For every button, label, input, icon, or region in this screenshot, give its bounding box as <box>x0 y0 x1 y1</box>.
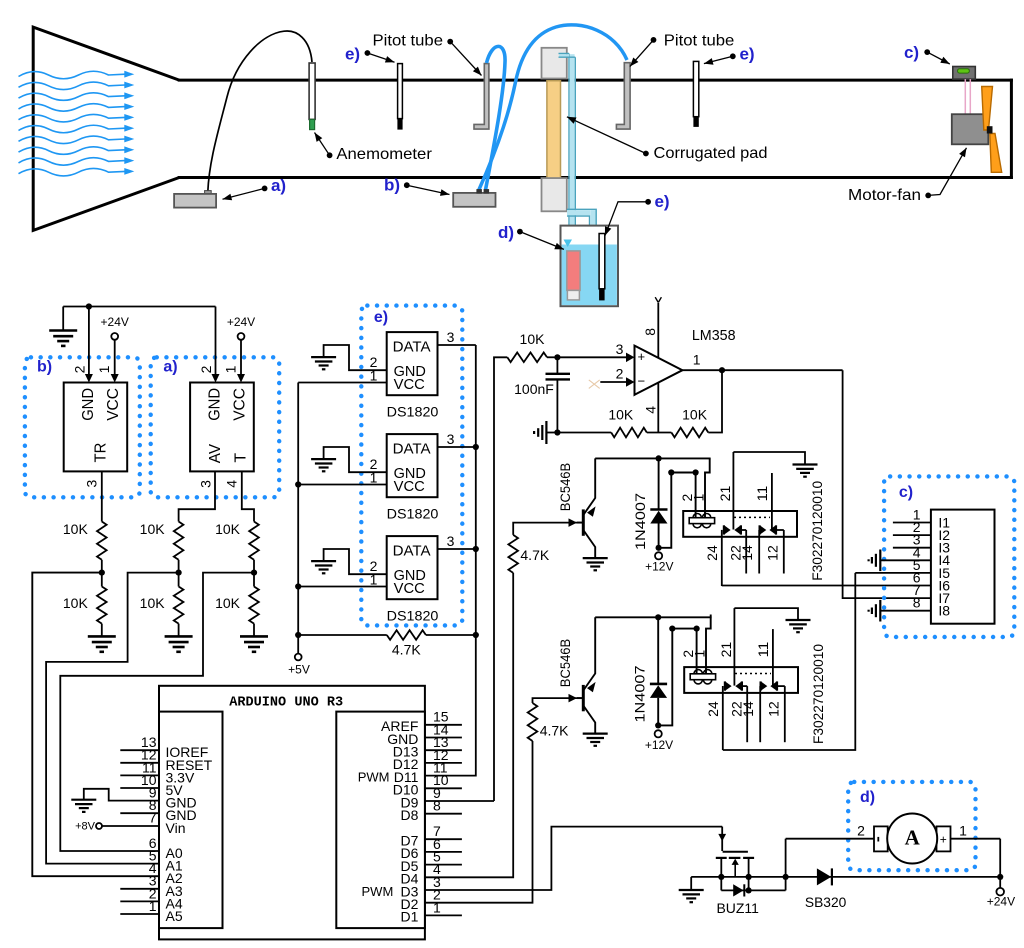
BUZ11 channel plate <box>716 857 727 859</box>
Arduino right pin 10 (D10) <box>425 787 462 789</box>
svg-text:2: 2 <box>71 365 87 373</box>
anemometer probe <box>309 63 315 119</box>
thermometer probe 1 in duct <box>398 64 403 119</box>
+5V bus wire <box>297 383 299 654</box>
connector pin 5 wire stub <box>855 572 931 574</box>
relay contact B triangles <box>758 525 760 534</box>
Arduino right pin 8 (D8) <box>425 813 462 815</box>
svg-text:4.7K: 4.7K <box>392 642 421 658</box>
hose pitot A to box b <box>486 46 506 190</box>
ground of divider at x=178.6 <box>178 624 180 637</box>
svg-text:24: 24 <box>705 701 721 717</box>
svg-text:c): c) <box>904 43 919 62</box>
resistor 4.7K pullup <box>298 634 387 636</box>
svg-text:DS1820: DS1820 <box>387 403 439 419</box>
DS1820 #2 DATA pin 3 wire <box>438 446 476 448</box>
svg-text:1: 1 <box>223 365 239 373</box>
svg-text:1: 1 <box>693 352 701 368</box>
relay contact common pin 14 <box>758 530 760 574</box>
relay pin 11 wire <box>772 629 774 686</box>
svg-text:b): b) <box>384 175 400 194</box>
+5V supply terminal <box>295 654 302 661</box>
svg-text:10K: 10K <box>140 595 166 611</box>
relay box F302270120010 <box>684 667 798 693</box>
svg-text:e): e) <box>739 44 754 63</box>
Arduino left pin 11 (3.3V) <box>120 774 159 776</box>
BUZ11 gate lead with arrow <box>721 827 723 851</box>
svg-text:1: 1 <box>959 823 967 839</box>
svg-text:D8: D8 <box>400 807 418 823</box>
resistor 10K op-amp input <box>494 357 507 801</box>
relay box F302270120010 <box>683 511 797 537</box>
svg-text:10K: 10K <box>520 331 546 347</box>
DS1820 #2 VCC pin 1 wire <box>298 484 387 486</box>
DATA bus wire to Arduino D11 <box>425 345 476 776</box>
svg-text:DS1820: DS1820 <box>387 607 439 623</box>
resistor 10K upper divider at x=101.8 <box>97 522 107 560</box>
svg-text:+12V: +12V <box>645 559 673 573</box>
svg-text:10K: 10K <box>682 407 708 423</box>
wire 4.7K to Arduino D2 <box>425 741 533 903</box>
svg-text:ARDUINO UNO R3: ARDUINO UNO R3 <box>229 695 343 711</box>
BUZ11 body diode <box>721 889 785 891</box>
pitot tube A <box>474 64 489 130</box>
fan blades <box>982 87 993 131</box>
svg-text:DATA: DATA <box>393 440 431 457</box>
relay armature dotted line <box>735 673 771 675</box>
svg-text:e): e) <box>374 309 388 326</box>
svg-text:DATA: DATA <box>393 542 431 559</box>
svg-text:GND: GND <box>206 388 223 421</box>
svg-text:14: 14 <box>740 701 756 717</box>
svg-text:10K: 10K <box>608 407 634 423</box>
relay 1 pin 21 to ground <box>733 452 805 465</box>
Arduino left pin 13 (IOREF) <box>120 749 159 751</box>
pressure sensor box a under duct <box>174 194 216 208</box>
DS1820 #1 GND pin 2 wire and ground <box>324 345 387 370</box>
svg-text:3: 3 <box>447 329 455 345</box>
relay contact B triangles <box>759 681 761 690</box>
sensor b) GND pin wire (pin 2) <box>88 307 90 376</box>
svg-text:8: 8 <box>433 798 441 814</box>
L-tube from pad into container <box>567 209 596 241</box>
svg-text:−: − <box>638 374 646 389</box>
sensor a) VCC pin wire (pin 1) <box>240 340 242 375</box>
divider junction at x=178.6 <box>178 560 180 587</box>
DS1820 #3 box <box>387 536 438 599</box>
svg-text:10K: 10K <box>215 521 241 537</box>
Arduino left pin 2 (A4) <box>120 900 159 902</box>
svg-text:8: 8 <box>913 595 921 611</box>
junction input node <box>554 354 560 360</box>
connector box <box>931 510 995 624</box>
thermometer probe in container <box>599 234 605 289</box>
svg-text:I8: I8 <box>938 603 950 619</box>
svg-text:4.7K: 4.7K <box>540 723 569 739</box>
svg-text:SB320: SB320 <box>805 894 847 910</box>
pitot tube B <box>616 63 630 129</box>
svg-text:BC546B: BC546B <box>557 639 573 687</box>
svg-text:BUZ11: BUZ11 <box>717 900 760 916</box>
svg-text:d): d) <box>498 223 514 242</box>
+12V supply for relay 1 <box>656 545 662 551</box>
svg-text:1: 1 <box>96 365 112 373</box>
svg-text:10K: 10K <box>63 521 89 537</box>
svg-text:1N4007: 1N4007 <box>632 493 648 550</box>
svg-text:c): c) <box>899 484 913 501</box>
wire Arduino D9 to op-amp input resistor <box>425 800 494 802</box>
divider junction at x=101.8 <box>101 560 103 587</box>
feedback resistor 10K second <box>671 428 708 438</box>
svg-text:Pitot tube: Pitot tube <box>664 33 735 50</box>
resistor 10K upper divider at x=254 <box>249 522 259 560</box>
DS1820 #1 DATA pin 3 wire <box>438 344 476 346</box>
relay contact A triangles <box>723 525 725 534</box>
svg-text:14: 14 <box>739 545 755 561</box>
relay pin 21 wire <box>733 608 735 686</box>
wire relay 2 pin 24 to connector I5 <box>723 573 856 750</box>
svg-text:+5V: +5V <box>288 663 310 677</box>
resistor 10K lower divider at x=101.8 <box>97 587 107 624</box>
divider junction at x=254 <box>253 560 255 587</box>
relay contact A triangles <box>724 681 726 690</box>
ammeter wire pin 2 <box>785 839 787 877</box>
svg-text:Corrugated pad: Corrugated pad <box>654 145 768 162</box>
svg-text:24: 24 <box>704 545 720 561</box>
ground of divider at x=254 <box>253 624 255 637</box>
svg-text:3: 3 <box>447 431 455 447</box>
Arduino right pin header box <box>336 712 425 929</box>
+12V supply for relay 2 <box>655 722 661 728</box>
svg-text:10K: 10K <box>63 595 89 611</box>
svg-text:2: 2 <box>857 823 865 839</box>
ammeter wire pin 1 <box>951 838 1001 840</box>
op-amp output pin 1 wire <box>682 369 842 371</box>
op-amp LM358 U1 <box>635 346 683 395</box>
svg-text:2: 2 <box>616 366 624 382</box>
wire to op-amp pin 3 <box>557 356 627 358</box>
svg-text:LM358: LM358 <box>692 327 736 344</box>
dotted box d) <box>848 782 975 870</box>
resistor 10K upper divider at x=178.6 <box>174 522 184 560</box>
vertical tube from pad to heater <box>569 54 575 250</box>
pressure sensor b) box <box>64 383 127 472</box>
feedback resistor 10K first <box>557 432 611 434</box>
svg-text:F302270120010: F302270120010 <box>810 481 825 581</box>
ground symbol top-left <box>62 307 64 331</box>
sensor b) +24V supply <box>111 333 118 340</box>
svg-text:DATA: DATA <box>393 338 431 355</box>
op-amp pin 4 wire <box>657 383 659 433</box>
svg-text:Vin: Vin <box>166 820 186 836</box>
dotted box a) <box>151 357 280 497</box>
sensor b) pin 3 wire <box>101 471 103 521</box>
wire op-amp output down to connector I7 <box>843 370 931 598</box>
svg-text:4.7K: 4.7K <box>520 547 549 563</box>
corrugated pad holder bottom block <box>542 178 567 211</box>
Arduino left pin 1 (A5) <box>120 913 159 915</box>
svg-text:F302270120010: F302270120010 <box>811 644 826 744</box>
svg-text:4: 4 <box>224 480 240 488</box>
svg-text:8: 8 <box>642 328 658 336</box>
svg-text:11: 11 <box>755 642 771 658</box>
svg-text:3: 3 <box>84 479 100 487</box>
DS1820 #1 VCC pin 1 wire <box>298 382 387 384</box>
ground at connector pin 8 <box>879 600 881 622</box>
svg-text:7: 7 <box>149 810 157 826</box>
ammeter terminal blocks <box>874 826 888 851</box>
+24V supply terminal <box>997 874 1003 880</box>
junction node at sensor b GND <box>86 303 92 309</box>
relay pin 22 wire <box>742 685 747 687</box>
Arduino right pin 13 (D13) <box>425 749 462 751</box>
connector pin 3 wire <box>893 547 931 549</box>
Arduino right pin 6 (D6) <box>425 851 462 853</box>
sensor a) +24V supply <box>238 333 245 340</box>
water container <box>561 226 619 307</box>
Arduino left pin 3 (A3) <box>120 888 159 890</box>
dotted box b) <box>25 357 140 497</box>
svg-text:2: 2 <box>198 365 214 373</box>
svg-text:TR: TR <box>92 443 109 463</box>
svg-text:a): a) <box>271 176 286 195</box>
Arduino left pin 10 (5V) <box>120 787 159 789</box>
svg-text:1N4007: 1N4007 <box>632 665 648 722</box>
svg-text:10K: 10K <box>215 595 241 611</box>
svg-text:+24V: +24V <box>987 895 1015 909</box>
DS1820 #1 box <box>387 332 438 395</box>
svg-text:D1: D1 <box>400 909 418 925</box>
DS1820 #3 GND pin 2 wire and ground <box>324 549 387 574</box>
motor wires <box>964 79 966 114</box>
relay pin 12 wire <box>776 529 784 531</box>
wire divider a-T to Arduino A0 <box>60 573 254 851</box>
wire to op-amp pin 2 <box>600 381 627 383</box>
capacitor 100nF <box>556 357 558 373</box>
stray cross mark <box>589 380 600 389</box>
relay coil <box>690 674 715 680</box>
BUZ11 drain lead <box>748 858 750 891</box>
BUZ11 source lead <box>720 858 722 891</box>
+8V supply to Vin <box>96 823 102 829</box>
svg-text:+8V: +8V <box>75 821 96 833</box>
diode SB320 <box>786 876 1001 878</box>
Arduino left pin header box <box>159 712 223 929</box>
svg-text:A: A <box>905 825 921 849</box>
svg-text:GND: GND <box>80 388 97 421</box>
relay pin 22 wire <box>741 529 746 531</box>
svg-text:12: 12 <box>765 545 781 561</box>
wind tunnel duct top wall <box>178 79 1013 82</box>
sensor a) pin 3 wire <box>179 471 215 521</box>
svg-text:b): b) <box>37 359 52 376</box>
pressure sensor a) box <box>190 383 254 472</box>
ground of divider at x=101.8 <box>101 624 103 637</box>
air flow arrows <box>19 71 126 79</box>
Arduino right pin 15 (AREF) <box>425 724 462 726</box>
svg-text:3: 3 <box>197 480 213 488</box>
dotted box e) <box>361 306 462 626</box>
wind tunnel duct bottom wall <box>178 176 1013 179</box>
svg-text:Motor-fan: Motor-fan <box>848 187 921 204</box>
svg-text:+24V: +24V <box>101 315 129 329</box>
svg-text:+: + <box>940 832 947 846</box>
collector rail to relay 1 coil <box>595 457 710 459</box>
svg-text:+12V: +12V <box>645 738 673 752</box>
svg-text:A5: A5 <box>166 908 183 924</box>
svg-text:PWM: PWM <box>358 770 390 785</box>
relay armature dotted line <box>734 516 770 518</box>
Arduino right pin 14 (GND) <box>425 737 462 739</box>
resistor 10K lower divider at x=178.6 <box>174 587 184 624</box>
flyback diode 1N4007 D2 <box>657 617 659 684</box>
svg-text:21: 21 <box>718 642 734 658</box>
svg-text:1: 1 <box>370 469 378 485</box>
svg-text:11: 11 <box>754 485 770 501</box>
svg-text:12: 12 <box>766 701 782 717</box>
wire 4.7K to Arduino D4 <box>425 573 513 877</box>
transistor BC546B <box>582 685 585 711</box>
pressure sensor box b under duct <box>453 193 495 207</box>
wire +12V to relay 2 coil pin 2 <box>658 629 696 726</box>
svg-text:21: 21 <box>717 485 733 501</box>
wire Arduino D3 to BUZ11 gate <box>425 827 722 890</box>
ammeter A <box>887 814 937 864</box>
resistor 4.7K base of Q2 <box>533 698 582 703</box>
svg-text:1: 1 <box>370 571 378 587</box>
svg-text:+24V: +24V <box>227 315 255 329</box>
sensor a) pin 4 wire <box>242 471 254 521</box>
Arduino right pin 1 (D1) <box>425 914 462 916</box>
sensor a) GND pin wire (pin 2) <box>215 307 217 376</box>
sensor b) VCC pin wire (pin 1) <box>114 340 116 375</box>
DS1820 #3 DATA pin 3 wire <box>438 548 476 550</box>
ground at connector pin 4 <box>879 550 881 572</box>
svg-text:VCC: VCC <box>232 388 249 421</box>
thermometer probe 2 in duct <box>693 61 698 116</box>
svg-text:1: 1 <box>433 899 441 915</box>
wire relay 1 pin 24 to connector I6 <box>722 585 931 587</box>
svg-text:VCC: VCC <box>394 580 425 597</box>
BUZ11 ground <box>690 877 692 890</box>
svg-text:AV: AV <box>207 444 224 464</box>
relay pin 11 wire <box>771 473 773 530</box>
connector pin 2 wire <box>893 534 931 536</box>
svg-text:VCC: VCC <box>394 478 425 495</box>
svg-text:a): a) <box>163 359 177 376</box>
relay coil pin 2 wire <box>696 629 698 674</box>
relay coil pin 1 wire <box>705 458 710 517</box>
Arduino left pin 12 (RESET) <box>120 762 159 764</box>
svg-text:1: 1 <box>149 898 157 914</box>
connector pin 4 wire <box>880 559 931 561</box>
speed controller c) on duct <box>953 67 976 80</box>
BUZ11 mid rail <box>691 876 785 878</box>
transistor emitter ground <box>583 557 608 559</box>
svg-text:DS1820: DS1820 <box>387 505 439 521</box>
Arduino right pin 5 (D5) <box>425 864 462 866</box>
op-amp pin 8 supply <box>657 303 659 358</box>
svg-text:Pitot tube: Pitot tube <box>373 33 444 50</box>
transistor BC546B <box>582 509 585 535</box>
svg-text:1: 1 <box>691 493 707 501</box>
motor <box>952 114 989 144</box>
svg-text:3: 3 <box>616 341 624 357</box>
corrugated pad <box>547 81 561 178</box>
relay coil pin 1 wire <box>706 615 711 674</box>
hose pitot B to box b <box>479 25 627 190</box>
svg-text:10K: 10K <box>140 521 166 537</box>
Arduino right pin 12 (D12) <box>425 762 462 764</box>
svg-text:e): e) <box>654 192 669 211</box>
svg-text:VCC: VCC <box>394 376 425 393</box>
wire divider a-AV to Arduino A1 <box>46 573 179 864</box>
svg-text:PWM: PWM <box>362 884 394 899</box>
svg-text:VCC: VCC <box>105 388 122 421</box>
dotted box c) <box>884 476 1014 637</box>
relay contact common pin 14 <box>759 686 761 742</box>
DS1820 #3 VCC pin 1 wire <box>298 586 387 588</box>
relay pin 21 wire <box>732 452 734 530</box>
DS1820 #2 box <box>387 434 438 497</box>
Arduino right pin 7 (D7) <box>425 838 462 840</box>
svg-text:3: 3 <box>447 533 455 549</box>
svg-text:100nF: 100nF <box>514 381 554 397</box>
connector pin 1 wire <box>893 522 931 524</box>
wind tunnel duct right wall <box>1010 79 1013 179</box>
svg-text:4: 4 <box>643 406 659 414</box>
corrugated pad holder top block <box>542 48 567 79</box>
heater (d) in container <box>567 251 580 291</box>
ground at capacitor <box>554 429 560 435</box>
flyback diode 1N4007 D1 <box>658 458 660 510</box>
relay contact common pin 24 <box>721 530 723 586</box>
water level marker <box>564 240 573 248</box>
wire top rail to sensor GND pins <box>63 306 215 308</box>
anemometer cable to box a <box>208 31 312 192</box>
resistor 10K lower divider at x=254 <box>249 587 259 624</box>
inlet nozzle <box>33 27 179 230</box>
resistor 4.7K base of Q1 <box>513 523 582 535</box>
transistor emitter ground <box>583 732 608 734</box>
relay contact common pin 24 <box>722 686 724 750</box>
DS1820 #2 GND pin 2 wire and ground <box>324 447 387 472</box>
svg-text:1: 1 <box>692 650 708 658</box>
svg-text:d): d) <box>860 789 875 806</box>
relay coil <box>689 518 714 524</box>
relay 2 pin 21 to ground <box>734 608 798 620</box>
Arduino left pin 8 (GND) <box>120 812 159 814</box>
svg-text:Anemometer: Anemometer <box>336 146 432 163</box>
Arduino outer box <box>159 686 425 940</box>
BUZ11 body arrow <box>734 862 736 877</box>
collector rail to relay 2 coil <box>595 616 711 618</box>
svg-text:e): e) <box>345 44 360 63</box>
svg-text:BC546B: BC546B <box>557 463 573 511</box>
wire +12V to relay 1 coil pin 2 <box>659 473 696 548</box>
relay coil pin 2 wire <box>695 473 697 518</box>
relay pin 12 wire <box>777 685 785 687</box>
svg-text:+: + <box>638 349 646 364</box>
wire divider b to Arduino A2 <box>32 573 159 877</box>
BUZ11 gate plate <box>723 851 748 853</box>
svg-text:1: 1 <box>370 367 378 383</box>
connector pin 8 wire <box>880 610 931 612</box>
Arduino GND step wire and ground <box>84 789 159 801</box>
svg-text:T: T <box>233 453 250 463</box>
